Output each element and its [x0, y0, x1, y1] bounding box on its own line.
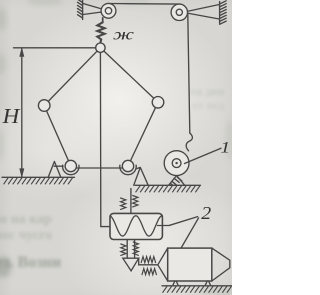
joint A top	[96, 43, 105, 52]
pulley P1 outer	[101, 3, 116, 18]
ground bottom hatching	[163, 286, 232, 292]
bearing spring below-left	[121, 244, 126, 255]
pulley P2 inner	[176, 9, 182, 15]
pulley P2 outer	[171, 4, 187, 20]
drum 1 inner	[172, 159, 181, 168]
ceiling mount left wall	[82, 0, 84, 20]
mixer body	[168, 248, 212, 281]
H dimension vertical line	[21, 49, 23, 177]
joint D cup	[63, 165, 79, 174]
cable down right	[188, 15, 190, 134]
drum 1 hub dot	[175, 162, 177, 164]
ground middle line	[135, 184, 201, 186]
funnel outlet edge	[138, 258, 140, 265]
link right-lower	[128, 102, 158, 166]
mixer foot left	[173, 281, 178, 285]
shaft above feeder	[130, 189, 132, 214]
bottom bar	[71, 167, 128, 169]
svg-text:ж: ж	[113, 26, 134, 44]
drum support hatch	[170, 177, 182, 185]
inlet spring lower	[142, 269, 156, 275]
link left-lower	[44, 106, 71, 167]
joint E bottom-mid	[122, 160, 133, 171]
ground left hatching	[4, 178, 73, 184]
joint D bottom-left	[65, 160, 76, 171]
bearing spring below-right	[133, 242, 138, 255]
bleed smudges	[0, 8, 6, 30]
H arrow up	[20, 48, 24, 56]
bracket right upper arm	[187, 5, 220, 12]
mixer foot right	[205, 281, 210, 285]
ground left line	[2, 176, 75, 178]
central rod	[100, 48, 110, 227]
bracket left upper arm	[83, 4, 106, 11]
inlet spring upper	[141, 257, 155, 263]
drum 1 outer	[164, 151, 189, 176]
shafts below feeder	[127, 240, 134, 258]
ceiling mount right wall	[219, 2, 221, 24]
feeder shaft stub right	[158, 225, 170, 227]
feeder screw sine	[111, 216, 162, 236]
bleed text right 1	[190, 84, 225, 99]
svg-text:H: H	[2, 104, 21, 128]
leader to label 1	[185, 148, 222, 163]
ground middle hatching	[136, 186, 200, 192]
spring ж zigzag	[97, 22, 104, 43]
joint C right	[152, 97, 164, 109]
bearing spring above-right	[133, 196, 138, 207]
mixer left cone	[158, 248, 168, 281]
joint E cup	[120, 165, 136, 174]
leader lower to label 2	[181, 218, 198, 248]
bearing spring above-left	[121, 198, 126, 209]
bracket right lower arm	[187, 13, 220, 19]
spring link to pulley	[102, 18, 104, 23]
drum support triangle	[169, 176, 185, 186]
support D triangle	[48, 162, 61, 178]
H dimension horizontal line	[14, 47, 96, 49]
bleed text bottom-left 3	[0, 254, 61, 272]
svg-text:1: 1	[220, 138, 230, 156]
leader upper to label 2	[170, 217, 198, 226]
link top-right	[100, 48, 158, 103]
mixer right cone	[212, 248, 230, 281]
funnel to mixer axis	[139, 264, 158, 266]
ceiling mount left hatching	[78, 0, 83, 2]
cable squiggle above drum	[186, 133, 192, 151]
support E triangle	[134, 167, 149, 185]
ceiling mount right hatching	[220, 1, 227, 4]
ground bottom line	[162, 285, 232, 287]
svg-text:2: 2	[201, 204, 211, 224]
cable over pulleys	[109, 3, 180, 6]
link top-left	[44, 48, 100, 106]
pulley P1 inner	[105, 8, 111, 14]
support D stem	[54, 165, 63, 167]
bleed text right 2	[192, 98, 224, 113]
bleed text bottom-left 2	[0, 228, 52, 244]
bleed text bottom-left 1	[0, 212, 52, 228]
H arrow down	[20, 169, 24, 177]
joint B left	[38, 100, 50, 112]
bracket left lower arm	[83, 12, 106, 15]
feeder box 2	[110, 213, 162, 239]
funnel triangle	[123, 258, 139, 271]
